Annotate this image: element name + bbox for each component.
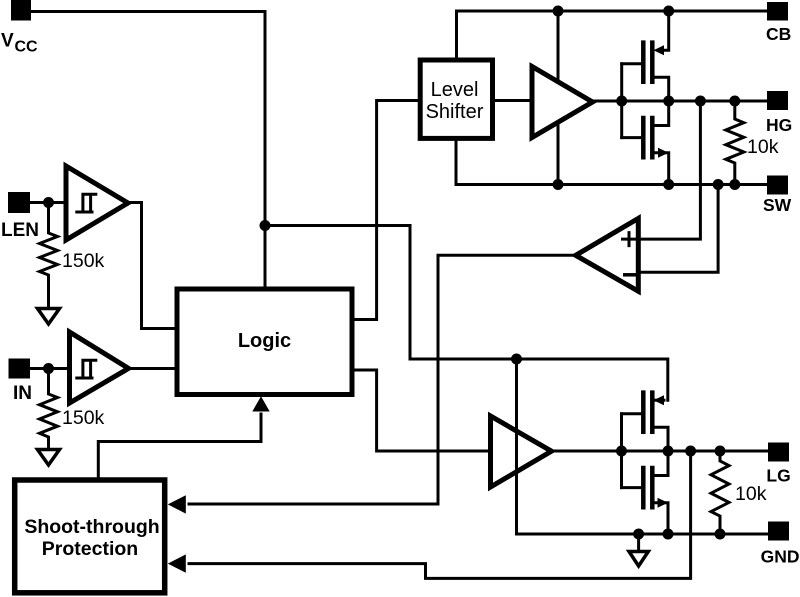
node HG at R3 <box>729 96 740 107</box>
resistor R4 10k between LG and GND <box>711 451 729 534</box>
hysteresis symbol in U1 <box>77 194 96 212</box>
svg-text:150k: 150k <box>62 407 105 429</box>
wire bias vertical through low-side driver and GND rail <box>517 359 768 534</box>
node VCC branch <box>260 220 271 231</box>
svg-text:Protection: Protection <box>42 538 138 560</box>
wire VCC branch to low-side driver rail <box>265 226 668 401</box>
svg-text:IN: IN <box>13 383 32 404</box>
node HG at Q1 Q2 <box>663 96 674 107</box>
node HG comparator tap <box>695 96 706 107</box>
transistor Q4 low-side NMOS <box>622 414 669 534</box>
node SW rail at Q2 source <box>663 179 674 190</box>
wire comparator minus input from SW rail <box>638 185 718 273</box>
wire IN buffer output to Logic <box>128 367 177 370</box>
block Shoot-through Protection <box>15 480 165 593</box>
svg-text:Shoot-through: Shoot-through <box>24 516 159 538</box>
svg-text:10k: 10k <box>747 136 779 158</box>
transistor Q3 low-side PMOS <box>622 393 669 451</box>
pin SW <box>767 176 788 195</box>
svg-text:Shifter: Shifter <box>426 101 484 123</box>
transistor Q1 high-side PMOS <box>622 11 669 101</box>
resistor R1 150k on LEN <box>40 203 58 309</box>
node LEN input <box>43 197 54 208</box>
arrowhead LG feedback into box <box>168 554 186 572</box>
wire bias vertical through high-side driver <box>557 11 560 185</box>
buffer U2 Schmitt trigger on IN <box>70 332 129 403</box>
buffer U1 Schmitt trigger on LEN <box>66 166 128 240</box>
svg-text:150k: 150k <box>62 250 105 272</box>
node SW at R3 <box>729 179 740 190</box>
svg-text:CC: CC <box>15 39 39 56</box>
node LG at R4 <box>715 446 726 457</box>
block Level Shifter <box>420 60 492 138</box>
pin CB <box>767 2 788 21</box>
wire high-side driver output / HG node line <box>593 100 768 103</box>
wire Logic output to low-side driver input <box>352 370 490 451</box>
wire LEN pin to buffer <box>30 201 66 204</box>
buffer U4 low-side driver <box>491 416 552 487</box>
label Level Shifter <box>426 79 484 123</box>
pin LEN <box>8 192 30 213</box>
wire LEN buffer output to Logic <box>128 203 177 329</box>
arrow of Q3 <box>654 395 665 405</box>
arrowhead into Logic bottom <box>252 396 269 411</box>
arrowhead comparator output into box <box>168 495 186 513</box>
arrow of Q2 <box>658 148 669 158</box>
transistor Q2 high-side NMOS <box>622 64 669 185</box>
node LG feedback tap <box>685 446 696 457</box>
node HG gate bus <box>616 96 627 107</box>
node SW comparator tap <box>713 179 724 190</box>
block Logic <box>177 289 352 395</box>
ground symbol below R1 <box>38 309 60 325</box>
node GND at R4 <box>715 529 726 540</box>
pin LG <box>768 443 789 462</box>
node LG at Q3 Q4 <box>663 446 674 457</box>
pin GND <box>768 522 789 541</box>
wire Level Shifter bottom to SW rail <box>456 138 767 184</box>
resistor R2 150k on IN <box>40 369 58 450</box>
wire Logic output to Level Shifter input <box>352 101 420 320</box>
node GND rail at Q4 source <box>663 529 674 540</box>
node CB rail at Q1 drain <box>663 6 674 17</box>
arrow of Q4 <box>658 498 669 508</box>
node VCC rail at LG bias <box>511 354 522 365</box>
wire comparator output to shoot-through protection <box>189 255 576 504</box>
svg-text:Logic: Logic <box>238 330 291 352</box>
minus sign in U5 <box>625 273 636 277</box>
hysteresis symbol in U2 <box>77 360 96 378</box>
svg-text:LEN: LEN <box>1 220 39 241</box>
comparator U5 <box>576 218 639 291</box>
svg-text:Level: Level <box>431 79 479 101</box>
svg-text:HG: HG <box>766 115 792 135</box>
label VCC <box>1 31 38 56</box>
ground symbol below R2 <box>38 450 60 466</box>
svg-text:10k: 10k <box>735 483 767 505</box>
svg-text:V: V <box>1 31 14 52</box>
wire comparator plus input from HG node <box>638 101 700 239</box>
pin VCC <box>11 0 31 21</box>
wire CB top rail <box>457 11 768 61</box>
resistor R3 10k between HG and SW <box>726 101 744 185</box>
node IN input <box>43 363 54 374</box>
label Shoot-through Protection <box>24 516 159 560</box>
wire VCC pin to vertical drop into Logic top <box>31 12 265 290</box>
svg-text:GND: GND <box>761 547 800 567</box>
ground symbol on GND rail <box>629 534 648 566</box>
node SW rail at bias <box>553 179 564 190</box>
pin IN <box>9 359 31 379</box>
node GND rail at ground symbol <box>633 529 644 540</box>
pin HG <box>767 91 788 110</box>
wire Level Shifter output to high-side driver <box>493 99 533 102</box>
arrow of Q1 <box>654 45 665 55</box>
wire shoot-through protection to Logic bottom <box>98 414 261 480</box>
svg-text:CB: CB <box>766 24 791 44</box>
wire LG node feedback to shoot-through protection <box>189 451 691 578</box>
svg-text:SW: SW <box>763 195 792 215</box>
node LG gate bus <box>616 446 627 457</box>
wire IN pin to buffer <box>30 367 70 370</box>
svg-text:LG: LG <box>766 466 790 486</box>
node CB rail at bias <box>553 6 564 17</box>
wire low-side driver output / LG node line <box>554 450 768 453</box>
buffer U3 high-side driver <box>532 67 593 138</box>
plus sign in U5 <box>623 233 636 246</box>
